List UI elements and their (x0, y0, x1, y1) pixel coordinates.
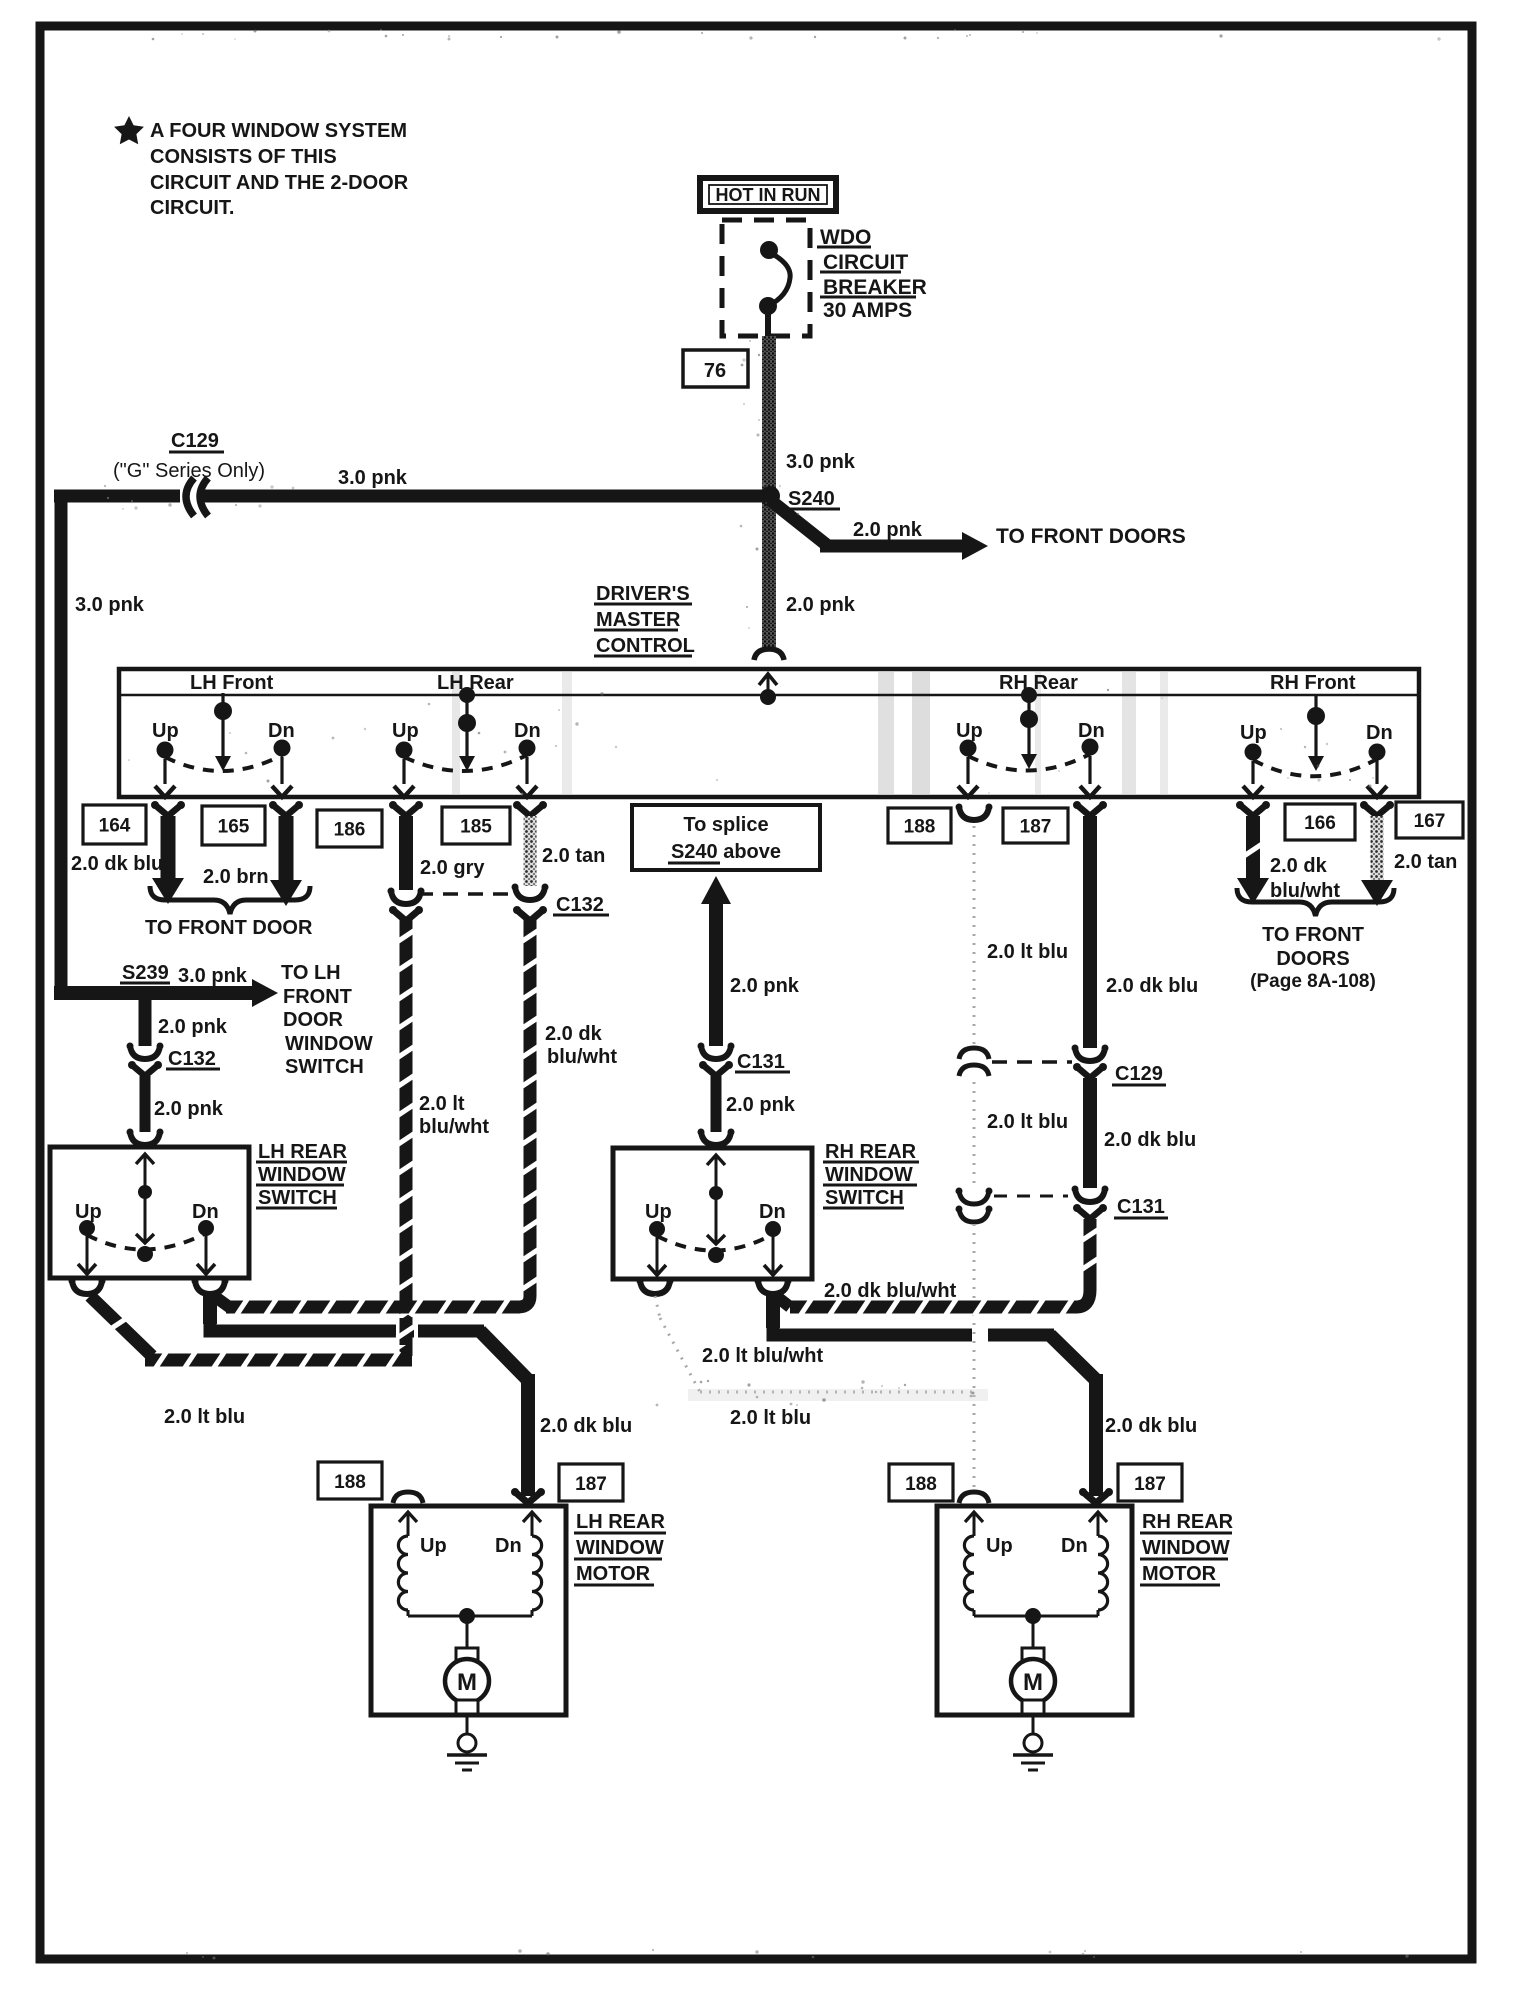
svg-text:blu/wht: blu/wht (419, 1116, 489, 1138)
svg-text:2.0 pnk: 2.0 pnk (853, 519, 923, 541)
svg-text:2.0 lt blu/wht: 2.0 lt blu/wht (702, 1345, 823, 1367)
svg-text:C131: C131 (1117, 1196, 1165, 1218)
svg-text:167: 167 (1414, 811, 1446, 832)
svg-text:2.0 dk blu: 2.0 dk blu (1104, 1129, 1196, 1151)
svg-text:Dn: Dn (514, 720, 541, 742)
svg-text:2.0 dk blu: 2.0 dk blu (1106, 975, 1198, 997)
svg-text:2.0 dk blu: 2.0 dk blu (71, 853, 163, 875)
svg-text:(Page 8A-108): (Page 8A-108) (1250, 971, 1376, 992)
svg-text:TO FRONT DOORS: TO FRONT DOORS (996, 525, 1186, 548)
svg-text:188: 188 (334, 1472, 366, 1493)
svg-text:187: 187 (575, 1474, 607, 1495)
svg-text:WINDOW: WINDOW (1142, 1537, 1230, 1559)
svg-text:S240: S240 (788, 488, 835, 510)
svg-text:CONSISTS OF THIS: CONSISTS OF THIS (150, 146, 337, 168)
svg-text:Dn: Dn (268, 720, 295, 742)
svg-text:Dn: Dn (1366, 722, 1393, 744)
svg-text:2.0 lt blu: 2.0 lt blu (730, 1407, 811, 1429)
svg-text:186: 186 (334, 820, 366, 841)
svg-text:2.0 tan: 2.0 tan (1394, 851, 1457, 873)
svg-text:2.0 lt blu: 2.0 lt blu (987, 1111, 1068, 1133)
svg-text:M: M (457, 1669, 477, 1696)
svg-text:blu/wht: blu/wht (547, 1046, 617, 1068)
svg-text:3.0 pnk: 3.0 pnk (338, 467, 408, 489)
svg-text:76: 76 (704, 360, 726, 382)
svg-text:DOORS: DOORS (1276, 948, 1349, 970)
svg-text:Up: Up (645, 1201, 672, 1223)
svg-text:CIRCUIT AND THE 2-DOOR: CIRCUIT AND THE 2-DOOR (150, 172, 409, 194)
svg-text:HOT IN RUN: HOT IN RUN (716, 185, 821, 205)
svg-text:Up: Up (986, 1535, 1013, 1557)
svg-text:2.0 pnk: 2.0 pnk (786, 594, 856, 616)
svg-text:2.0 dk: 2.0 dk (545, 1023, 603, 1045)
svg-text:FRONT: FRONT (283, 986, 352, 1008)
svg-text:Up: Up (152, 720, 179, 742)
svg-text:2.0 pnk: 2.0 pnk (726, 1094, 796, 1116)
svg-text:DOOR: DOOR (283, 1009, 344, 1031)
svg-text:WINDOW: WINDOW (576, 1537, 664, 1559)
svg-text:A FOUR WINDOW SYSTEM: A FOUR WINDOW SYSTEM (150, 120, 407, 142)
svg-text:RH Rear: RH Rear (999, 672, 1078, 694)
svg-text:2.0 gry: 2.0 gry (420, 857, 485, 879)
svg-text:MOTOR: MOTOR (1142, 1563, 1217, 1585)
svg-text:RH Front: RH Front (1270, 672, 1356, 694)
svg-text:SWITCH: SWITCH (258, 1187, 337, 1209)
svg-text:Dn: Dn (495, 1535, 522, 1557)
svg-text:2.0 lt blu: 2.0 lt blu (164, 1406, 245, 1428)
svg-text:185: 185 (460, 817, 492, 838)
svg-text:188: 188 (904, 817, 936, 838)
svg-text:RH REAR: RH REAR (1142, 1511, 1234, 1533)
svg-text:M: M (1023, 1669, 1043, 1696)
svg-text:2.0 lt: 2.0 lt (419, 1093, 465, 1115)
svg-text:CIRCUIT.: CIRCUIT. (150, 197, 234, 219)
svg-text:C129: C129 (1115, 1063, 1163, 1085)
svg-text:LH REAR: LH REAR (576, 1511, 665, 1533)
svg-text:Up: Up (420, 1535, 447, 1557)
svg-text:2.0 dk: 2.0 dk (1270, 855, 1328, 877)
svg-text:WINDOW: WINDOW (825, 1164, 913, 1186)
svg-text:("G" Series Only): ("G" Series Only) (113, 460, 265, 482)
svg-text:CONTROL: CONTROL (596, 635, 695, 657)
svg-text:DRIVER'S: DRIVER'S (596, 583, 690, 605)
svg-text:165: 165 (218, 817, 250, 838)
svg-text:S239: S239 (122, 962, 169, 984)
svg-text:To splice: To splice (683, 814, 768, 836)
svg-text:TO LH: TO LH (281, 962, 341, 984)
svg-text:166: 166 (1304, 813, 1336, 834)
svg-text:187: 187 (1134, 1474, 1166, 1495)
svg-text:2.0 dk blu/wht: 2.0 dk blu/wht (824, 1280, 957, 1302)
svg-text:Up: Up (392, 720, 419, 742)
svg-text:Dn: Dn (1061, 1535, 1088, 1557)
svg-text:Dn: Dn (192, 1201, 219, 1223)
svg-text:C132: C132 (556, 894, 604, 916)
svg-text:MOTOR: MOTOR (576, 1563, 651, 1585)
svg-text:RH REAR: RH REAR (825, 1141, 917, 1163)
svg-text:164: 164 (99, 816, 131, 837)
svg-text:LH Front: LH Front (190, 672, 274, 694)
svg-text:C129: C129 (171, 430, 219, 452)
svg-text:S240 above: S240 above (671, 841, 781, 863)
svg-text:Up: Up (75, 1201, 102, 1223)
svg-text:TO FRONT: TO FRONT (1262, 924, 1364, 946)
svg-text:2.0 pnk: 2.0 pnk (730, 975, 800, 997)
svg-text:2.0 brn: 2.0 brn (203, 866, 269, 888)
svg-text:30 AMPS: 30 AMPS (823, 299, 912, 322)
svg-text:2.0 tan: 2.0 tan (542, 845, 605, 867)
svg-text:WINDOW: WINDOW (258, 1164, 346, 1186)
svg-text:Up: Up (1240, 722, 1267, 744)
svg-text:3.0 pnk: 3.0 pnk (75, 594, 145, 616)
svg-text:SWITCH: SWITCH (285, 1056, 364, 1078)
svg-text:LH REAR: LH REAR (258, 1141, 347, 1163)
svg-text:C131: C131 (737, 1051, 785, 1073)
svg-text:187: 187 (1020, 817, 1052, 838)
svg-text:188: 188 (905, 1474, 937, 1495)
svg-text:2.0 dk blu: 2.0 dk blu (1105, 1415, 1197, 1437)
svg-text:C132: C132 (168, 1048, 216, 1070)
svg-text:Dn: Dn (759, 1201, 786, 1223)
svg-text:Up: Up (956, 720, 983, 742)
svg-text:3.0 pnk: 3.0 pnk (786, 451, 856, 473)
svg-text:3.0 pnk: 3.0 pnk (178, 965, 248, 987)
svg-text:2.0 dk blu: 2.0 dk blu (540, 1415, 632, 1437)
svg-text:WINDOW: WINDOW (285, 1033, 373, 1055)
svg-text:MASTER: MASTER (596, 609, 681, 631)
svg-text:2.0 pnk: 2.0 pnk (158, 1016, 228, 1038)
svg-text:2.0 pnk: 2.0 pnk (154, 1098, 224, 1120)
svg-text:SWITCH: SWITCH (825, 1187, 904, 1209)
svg-text:LH Rear: LH Rear (437, 672, 514, 694)
svg-text:TO FRONT DOOR: TO FRONT DOOR (145, 917, 313, 939)
svg-text:2.0 lt blu: 2.0 lt blu (987, 941, 1068, 963)
svg-text:blu/wht: blu/wht (1270, 880, 1340, 902)
